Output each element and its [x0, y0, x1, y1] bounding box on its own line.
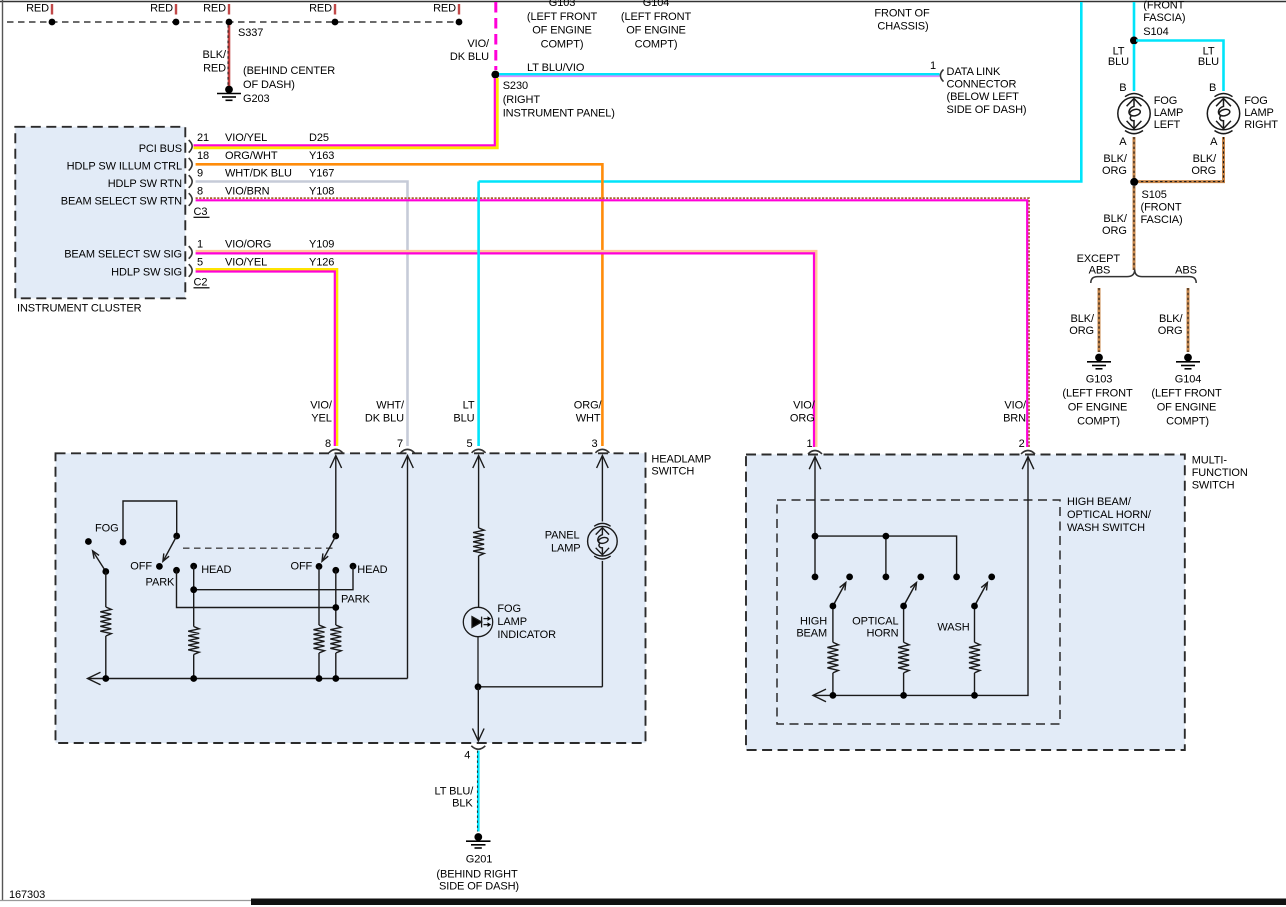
svg-text:SWITCH: SWITCH: [1192, 480, 1235, 492]
svg-text:VIO/: VIO/: [1004, 400, 1027, 412]
svg-text:CHASSIS): CHASSIS): [877, 21, 928, 33]
svg-text:VIO/BRN: VIO/BRN: [225, 186, 270, 198]
wafer 1 blade: [163, 536, 176, 561]
svg-text:ABS: ABS: [1175, 265, 1197, 277]
pin 7 connector arc: [401, 449, 415, 452]
svg-text:LT: LT: [463, 400, 475, 412]
svg-text:BLK/: BLK/: [1071, 313, 1095, 325]
svg-text:WHT/: WHT/: [376, 400, 405, 412]
svg-text:S105: S105: [1142, 189, 1167, 201]
resistor park: [330, 625, 341, 653]
pin 4 connector arc: [471, 746, 485, 749]
top RED bus dashed wire: [7, 21, 459, 23]
wafer 1 OFF contact: [156, 563, 163, 570]
wire RED stub 1: [51, 4, 53, 15]
svg-text:ORG: ORG: [1102, 165, 1127, 177]
svg-text:RED: RED: [26, 3, 49, 15]
svg-text:OF ENGINE: OF ENGINE: [532, 25, 592, 37]
svg-text:(BELOW LEFT: (BELOW LEFT: [947, 91, 1020, 103]
common rail with arrow: [89, 678, 408, 680]
svg-text:3: 3: [591, 438, 597, 450]
svg-text:ORG: ORG: [1191, 165, 1216, 177]
wire ORG/WHT pin 18 to headlamp switch pin 3: [196, 164, 603, 446]
wire LT BLU/VIO from S230 to data link connector: [499, 75, 940, 78]
svg-text:YEL: YEL: [311, 413, 332, 425]
svg-text:(LEFT FRONT: (LEFT FRONT: [1151, 388, 1222, 400]
svg-text:COMPT): COMPT): [635, 38, 678, 50]
headlamp switch wafer 1 pivot: [173, 533, 180, 540]
optical horn switch blade: [904, 583, 917, 606]
svg-text:BLK: BLK: [452, 798, 473, 810]
svg-text:5: 5: [197, 257, 203, 269]
wire RED stub 4: [334, 4, 336, 15]
svg-text:MULTI-: MULTI-: [1192, 455, 1228, 467]
svg-text:VIO/YEL: VIO/YEL: [225, 257, 267, 269]
lamp PANEL LAMP: [588, 523, 618, 686]
node S230: [491, 71, 499, 79]
wash switch blade: [975, 583, 988, 606]
wire LT BLU from horizontal run down to headlamp switch pin 5: [477, 182, 480, 447]
pin 3 entry arrow + wire to panel lamp: [597, 456, 609, 469]
wire VIO/YEL from S230 down-left to instrument cluster pin 21: [194, 78, 498, 148]
node S105: [1130, 178, 1138, 186]
return rail junction dots: [830, 692, 837, 699]
pin 3 connector arc: [595, 449, 609, 452]
pin 1 connector arc: [189, 246, 192, 259]
wire PARK contacts tie: [177, 570, 336, 607]
svg-text:G201: G201: [466, 854, 493, 866]
wafer 1 PARK contact: [173, 567, 180, 574]
svg-text:LAMP: LAMP: [551, 543, 581, 555]
svg-text:G103: G103: [549, 0, 576, 9]
svg-text:EXCEPT: EXCEPT: [1077, 253, 1121, 265]
high beam blade to resistor to rail: [832, 606, 834, 642]
LED fog lamp indicator: [463, 607, 492, 687]
svg-text:FOG: FOG: [95, 523, 119, 535]
pin 1 entry arrow + wire to feed rail: [809, 457, 821, 470]
svg-text:18: 18: [197, 150, 209, 162]
svg-text:VIO/YEL: VIO/YEL: [225, 132, 267, 144]
svg-text:PARK: PARK: [341, 594, 371, 606]
wire LT BLU/BLK pin 4 to G201: [477, 751, 480, 832]
svg-text:RED: RED: [150, 3, 173, 15]
svg-text:VIO/: VIO/: [310, 400, 333, 412]
FOG switch blade: [93, 552, 106, 572]
wafer 2 HEAD contact: [350, 563, 357, 570]
frame: [0, 1, 1286, 3]
svg-text:C3: C3: [194, 206, 208, 218]
wire VIO/ORG pin 1 to multi-function switch pin 1: [196, 251, 817, 447]
svg-text:INSTRUMENT CLUSTER: INSTRUMENT CLUSTER: [17, 303, 142, 315]
svg-text:WASH: WASH: [937, 622, 969, 634]
svg-text:HDLP SW ILLUM CTRL: HDLP SW ILLUM CTRL: [67, 161, 182, 173]
node S104: [1130, 37, 1138, 45]
resistor fog: [100, 607, 111, 636]
optical horn blade to resistor to rail: [903, 606, 905, 642]
svg-text:HEAD: HEAD: [201, 564, 231, 576]
svg-text:BEAM SELECT SW SIG: BEAM SELECT SW SIG: [64, 249, 182, 261]
wire VIO/DK BLU dashed (to top of page): [494, 2, 497, 70]
svg-text:LT BLU/VIO: LT BLU/VIO: [527, 62, 585, 74]
lamp FOG LAMP RIGHT: [1207, 94, 1239, 134]
node S337 bus junction dots: [49, 19, 56, 26]
pin 5 connector arc: [472, 449, 486, 452]
svg-text:Y109: Y109: [309, 238, 334, 250]
resistor head: [188, 627, 199, 655]
svg-text:CONNECTOR: CONNECTOR: [947, 79, 1017, 91]
svg-text:BLK/: BLK/: [1159, 313, 1183, 325]
svg-text:Y126: Y126: [309, 257, 334, 269]
ground G201: [466, 834, 491, 848]
wire RED stub 3: [228, 4, 230, 15]
svg-text:BRN: BRN: [1003, 413, 1026, 425]
svg-text:G104: G104: [1175, 374, 1202, 386]
wafer 2 OFF contact: [316, 563, 323, 570]
svg-text:S337: S337: [238, 27, 263, 39]
svg-text:COMPT): COMPT): [541, 38, 584, 50]
svg-text:OF ENGINE: OF ENGINE: [1068, 402, 1128, 414]
svg-text:RED: RED: [309, 3, 332, 15]
svg-text:PARK: PARK: [146, 577, 176, 589]
pin 8 entry arrow + wire to switch pivot: [330, 456, 342, 469]
svg-text:BLU: BLU: [1108, 56, 1129, 68]
wire WHT/DK BLU pin 9 to headlamp switch pin 7: [196, 182, 408, 447]
FOG switch contact: [85, 538, 92, 545]
inner box high beam/optical horn/wash switch: [777, 500, 1060, 724]
svg-text:A: A: [1210, 136, 1218, 148]
wire LT BLU from S104 to fog lamp left: [1133, 44, 1136, 91]
svg-text:8: 8: [197, 186, 203, 198]
pin 5 entry arrow + wire to resistor: [473, 456, 485, 469]
pin 1 connector arc: [808, 451, 822, 454]
wire indicator/panel-lamp junction to pin 4: [478, 686, 602, 688]
svg-text:FASCIA): FASCIA): [1141, 214, 1183, 226]
svg-text:BLK/: BLK/: [203, 49, 227, 61]
ground G103: [1087, 354, 1111, 368]
wire BLK/ORG fog lamp left to S105: [1133, 137, 1136, 178]
svg-text:VIO/: VIO/: [793, 400, 816, 412]
wire PARK junction to resistor: [335, 608, 337, 626]
svg-text:21: 21: [197, 132, 209, 144]
svg-text:1: 1: [806, 438, 812, 450]
svg-text:FOG: FOG: [497, 603, 521, 615]
wire LT BLU from S104 to fog lamp right: [1136, 41, 1224, 92]
wire VIO/YEL pin 5 to headlamp switch pin 8: [196, 269, 337, 446]
pin 8 connector arc: [189, 193, 192, 206]
svg-text:S230: S230: [503, 80, 528, 92]
pin 8 connector arc: [329, 449, 343, 452]
svg-text:RED: RED: [203, 63, 226, 75]
wire BLK/RED from S337 to G203: [228, 25, 231, 87]
pin 7 entry arrow + wire to common rail: [402, 456, 414, 469]
svg-text:B: B: [1209, 82, 1216, 94]
svg-text:RED: RED: [203, 3, 226, 15]
svg-text:1: 1: [930, 60, 936, 72]
svg-text:INDICATOR: INDICATOR: [497, 629, 556, 641]
wire OFF contact to resistor: [318, 566, 320, 625]
svg-text:(FRONT: (FRONT: [1143, 0, 1184, 12]
brace splitting EXCEPT ABS / ABS: [1091, 270, 1196, 284]
svg-text:2: 2: [1019, 438, 1025, 450]
svg-text:WHT: WHT: [576, 413, 601, 425]
multi-function switch box: [746, 455, 1185, 751]
wire BLK/ORG fog lamp right to S105: [1138, 137, 1224, 182]
svg-text:1: 1: [197, 238, 203, 250]
svg-text:HEAD: HEAD: [357, 564, 387, 576]
wash blade to resistor to rail: [974, 606, 976, 642]
svg-text:OFF: OFF: [290, 561, 312, 573]
svg-text:(RIGHT: (RIGHT: [503, 94, 541, 106]
rail junction dots: [102, 675, 109, 682]
pin 5 connector arc: [189, 264, 192, 277]
mechanical link dashed: [183, 547, 333, 549]
resistor on LT BLU branch: [473, 528, 484, 556]
svg-text:HORN: HORN: [867, 628, 899, 640]
svg-text:7: 7: [397, 438, 403, 450]
svg-text:HIGH: HIGH: [800, 616, 827, 628]
svg-text:WASH SWITCH: WASH SWITCH: [1067, 522, 1145, 534]
svg-text:ORG: ORG: [790, 413, 815, 425]
svg-text:167303: 167303: [9, 889, 45, 901]
svg-text:BLU: BLU: [1198, 56, 1219, 68]
svg-text:LAMP: LAMP: [1244, 107, 1274, 119]
svg-text:DK BLU: DK BLU: [450, 51, 489, 63]
svg-text:ORG: ORG: [1069, 325, 1094, 337]
svg-text:(LEFT FRONT: (LEFT FRONT: [1062, 388, 1133, 400]
svg-text:BEAM: BEAM: [796, 628, 827, 640]
svg-text:ORG/WHT: ORG/WHT: [225, 150, 278, 162]
wafer 2 pivot and wire up to pin 8: [332, 533, 339, 540]
svg-text:4: 4: [464, 750, 470, 762]
svg-text:OFF: OFF: [130, 561, 152, 573]
svg-text:BEAM SELECT SW RTN: BEAM SELECT SW RTN: [61, 195, 182, 207]
optical horn feed drop: [885, 536, 887, 577]
wire FOG blade to resistor: [105, 572, 107, 608]
svg-text:ORG: ORG: [1102, 225, 1127, 237]
pin 18 connector arc: [189, 158, 192, 171]
ground G104: [1176, 354, 1200, 368]
wire BLK/ORG from S105 to brace: [1133, 186, 1136, 270]
svg-text:FRONT OF: FRONT OF: [874, 7, 930, 19]
svg-text:OF ENGINE: OF ENGINE: [626, 25, 686, 37]
svg-text:5: 5: [466, 438, 472, 450]
svg-text:SIDE OF DASH): SIDE OF DASH): [439, 880, 519, 892]
wire HEAD contacts tie: [194, 566, 353, 590]
svg-text:9: 9: [197, 168, 203, 180]
svg-text:LAMP: LAMP: [497, 616, 527, 628]
svg-text:B: B: [1119, 82, 1126, 94]
wire from FOG fixed contact to OFF/PARK/HEAD pivot: [123, 501, 177, 542]
svg-text:SWITCH: SWITCH: [651, 466, 694, 478]
svg-text:VIO/ORG: VIO/ORG: [225, 238, 271, 250]
svg-text:ORG/: ORG/: [574, 400, 603, 412]
svg-text:(LEFT FRONT: (LEFT FRONT: [527, 11, 598, 23]
wire HEAD junction to resistor: [193, 590, 195, 627]
svg-text:(BEHIND CENTER: (BEHIND CENTER: [243, 65, 335, 77]
svg-text:(FRONT: (FRONT: [1141, 202, 1182, 214]
svg-text:BLK/: BLK/: [1103, 213, 1127, 225]
high beam switch blade: [833, 583, 846, 606]
svg-text:Y167: Y167: [309, 168, 334, 180]
svg-text:G103: G103: [1086, 374, 1113, 386]
svg-text:COMPT): COMPT): [1077, 415, 1120, 427]
svg-text:BLK/: BLK/: [1103, 153, 1127, 165]
contact dots: [812, 574, 819, 581]
blade pivot dots: [830, 603, 837, 610]
svg-text:ORG: ORG: [1158, 325, 1183, 337]
svg-text:HDLP SW SIG: HDLP SW SIG: [111, 266, 182, 278]
headlamp switch box: [56, 453, 646, 743]
svg-text:HEADLAMP: HEADLAMP: [651, 454, 711, 466]
svg-text:OF DASH): OF DASH): [243, 79, 295, 91]
svg-text:RED: RED: [433, 3, 456, 15]
svg-text:(LEFT FRONT: (LEFT FRONT: [621, 11, 692, 23]
svg-text:OF ENGINE: OF ENGINE: [1157, 402, 1217, 414]
svg-text:G104: G104: [643, 0, 670, 9]
wire LT BLU vertical from top of page to S104: [1133, 2, 1136, 37]
pin 9 connector arc: [189, 175, 192, 188]
wafer 2 blade: [322, 536, 335, 561]
wire panel lamp to bottom junction: [601, 561, 603, 687]
svg-text:OPTICAL: OPTICAL: [852, 616, 898, 628]
feed rail: [815, 536, 957, 577]
svg-text:LEFT: LEFT: [1154, 119, 1181, 131]
instrument cluster box: [15, 127, 185, 298]
svg-text:PANEL: PANEL: [545, 530, 580, 542]
svg-text:COMPT): COMPT): [1166, 415, 1209, 427]
svg-text:LAMP: LAMP: [1154, 107, 1184, 119]
wire RED stub 2: [175, 4, 177, 15]
svg-text:DATA LINK: DATA LINK: [947, 66, 1001, 78]
svg-text:(BEHIND RIGHT: (BEHIND RIGHT: [436, 868, 518, 880]
wafer 2 PARK contact: [332, 567, 339, 574]
svg-text:HIGH BEAM/: HIGH BEAM/: [1067, 496, 1132, 508]
svg-text:D25: D25: [309, 132, 329, 144]
wafer 1 HEAD contact: [190, 563, 197, 570]
resistor off: [314, 625, 325, 653]
wire BLK/ORG to G103: [1098, 288, 1101, 352]
svg-text:INSTRUMENT PANEL): INSTRUMENT PANEL): [503, 108, 615, 120]
ground G203: [217, 86, 241, 100]
lamp FOG LAMP LEFT: [1118, 94, 1150, 134]
svg-text:FOG: FOG: [1244, 95, 1268, 107]
svg-text:8: 8: [325, 438, 331, 450]
svg-text:FASCIA): FASCIA): [1143, 12, 1185, 24]
feed rail junction dots: [812, 533, 819, 540]
pin 2 connector arc: [1021, 451, 1035, 454]
svg-text:VIO/: VIO/: [467, 38, 490, 50]
svg-text:Y163: Y163: [309, 150, 334, 162]
svg-text:ABS: ABS: [1089, 265, 1111, 277]
svg-text:DK BLU: DK BLU: [365, 413, 404, 425]
svg-text:OPTICAL HORN/: OPTICAL HORN/: [1067, 509, 1152, 521]
svg-text:RIGHT: RIGHT: [1244, 119, 1278, 131]
svg-text:S104: S104: [1143, 26, 1168, 38]
svg-text:HDLP SW RTN: HDLP SW RTN: [108, 178, 182, 190]
svg-text:FOG: FOG: [1154, 95, 1178, 107]
svg-text:SIDE OF DASH): SIDE OF DASH): [947, 104, 1027, 116]
svg-text:BLK/: BLK/: [1193, 153, 1217, 165]
svg-text:FUNCTION: FUNCTION: [1192, 467, 1248, 479]
wire RED stub 5: [458, 4, 460, 15]
wire LT BLU vertical from top of page to horizontal run: [479, 2, 1082, 182]
svg-text:A: A: [1119, 136, 1127, 148]
svg-text:BLU: BLU: [453, 413, 474, 425]
svg-text:G203: G203: [243, 93, 270, 105]
pin 2 entry arrow + wire down to return rail: [1022, 457, 1034, 470]
svg-text:Y108: Y108: [309, 186, 334, 198]
wire BLK/ORG to G104: [1187, 288, 1190, 352]
svg-text:PCI BUS: PCI BUS: [139, 143, 182, 155]
wire VIO/BRN pin 8 to multi-function switch pin 2: [196, 198, 1029, 447]
svg-text:C2: C2: [194, 277, 208, 289]
pin 21 connector arc: [189, 140, 192, 153]
svg-text:WHT/DK BLU: WHT/DK BLU: [225, 168, 292, 180]
svg-text:LT BLU/: LT BLU/: [435, 786, 475, 798]
